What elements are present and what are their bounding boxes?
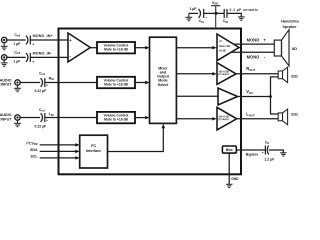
ground (C_S1) [185, 13, 192, 20]
svg-text:1 µF: 1 µF [13, 42, 20, 46]
svg-text:(2 steps): (2 steps) [218, 73, 228, 76]
svg-text:SDA: SDA [30, 148, 38, 152]
wire C_IN2 to VC2 [45, 82, 97, 84]
svg-text:INPUT: INPUT [0, 83, 12, 87]
wire C_IN1 to VC3 [45, 117, 97, 119]
svg-text:Mute to +18 dB: Mute to +18 dB [104, 48, 128, 52]
svg-text:Mute to +18 dB: Mute to +18 dB [104, 117, 128, 121]
svg-text:Handsfree: Handsfree [281, 19, 299, 23]
svg-text:Class AB: Class AB [219, 44, 230, 48]
block Mixer and Output Mode Select [150, 37, 177, 123]
svg-text:SCL: SCL [30, 154, 38, 158]
wire mixer to U6 [176, 118, 213, 120]
svg-text:32Ω: 32Ω [291, 112, 298, 116]
ground (J4 shell) [14, 120, 21, 127]
svg-text:+0: +0 [219, 39, 223, 43]
svg-text:MONO: MONO [247, 37, 261, 42]
wire U5 to VOC node [238, 96, 271, 98]
svg-text:MONO: MONO [247, 54, 261, 59]
svg-text:INPUT: INPUT [0, 117, 12, 121]
arrowhead VC1 to mixer [145, 46, 149, 49]
svg-text:ROUT: ROUT [246, 66, 255, 72]
svg-text:I2CVDD: I2CVDD [26, 140, 37, 146]
ground (J2 shell) [1, 60, 8, 66]
arrowhead mixer to U4 [212, 72, 216, 75]
arrowhead mixer to U3 [212, 46, 216, 49]
wire Bias to GND pin [228, 153, 230, 184]
svg-text:+: + [69, 38, 72, 43]
svg-text:Bias: Bias [226, 148, 233, 152]
wire U7 to mixer [108, 128, 164, 152]
svg-text:-: - [70, 53, 72, 58]
IC outline U1 [59, 29, 242, 175]
block Volume Control 2 [97, 77, 135, 88]
capacitor C_S2 [224, 9, 227, 18]
wire J4 to C_IN1 [20, 117, 40, 119]
svg-text:Cin4: Cin4 [14, 33, 21, 38]
op-amp U5 output common buffer [218, 88, 238, 105]
svg-text:+: + [263, 37, 266, 42]
svg-text:Cin2: Cin2 [39, 71, 46, 76]
svg-text:8Ω: 8Ω [292, 47, 297, 51]
svg-text:0.22 µF: 0.22 µF [35, 89, 47, 93]
op-amp U4 right headphone amp [217, 63, 236, 85]
svg-text:+: + [46, 119, 48, 123]
svg-text:CS2: CS2 [223, 19, 229, 24]
svg-text:MONO_IN-: MONO_IN- [33, 51, 53, 55]
capacitor C_IN2 [41, 78, 45, 87]
ground (J3 shell) [14, 85, 21, 92]
ground (J1 shell) [1, 43, 8, 50]
svg-text:+: + [32, 60, 34, 64]
block Bias supply [222, 146, 236, 153]
wire mixer to U3 [176, 47, 213, 49]
wire J3 to C_IN2 [20, 82, 40, 84]
wire U6 to SPK3 [237, 118, 279, 120]
wire VOC node to SPK3 return [271, 97, 279, 115]
wire Bias to Bypass pin [236, 149, 265, 151]
wire mixer to U5 [176, 95, 218, 97]
ground (C_S2) [238, 17, 245, 20]
svg-text:Interface: Interface [86, 149, 101, 153]
wire C_IN3 to U2 -in [30, 56, 68, 58]
speaker SPK3 left 32 ohm [278, 109, 287, 125]
wire U3 out MONO+ [234, 43, 275, 45]
wire SDA to U7 [40, 150, 77, 152]
block Volume Control 3 [97, 112, 135, 123]
wire VC1 to mixer [135, 47, 146, 49]
svg-text:CS1: CS1 [199, 19, 205, 24]
svg-text:(2 steps): (2 steps) [218, 118, 228, 121]
wire VC3 to mixer [135, 117, 146, 119]
svg-text:MONO_IN+: MONO_IN+ [33, 34, 53, 38]
wire U3 out MONO- [231, 51, 274, 53]
arrowhead I2CVDD [75, 143, 79, 146]
wire I2CVDD to U7 [40, 144, 77, 146]
wire mixer to U4 [176, 73, 213, 75]
svg-text:+: + [206, 15, 208, 19]
input jack J4 (left audio input) [15, 115, 20, 120]
wire C_S2 to ground [227, 13, 241, 17]
svg-text:Cin1: Cin1 [39, 108, 46, 113]
svg-text:Cin3: Cin3 [14, 50, 21, 55]
capacitor C_S1 [199, 9, 204, 18]
wire U2 out to VC1 [90, 47, 97, 49]
capacitor C_IN3 [26, 53, 30, 62]
svg-text:I2C: I2C [91, 143, 96, 148]
svg-text:Select: Select [158, 83, 169, 87]
arrowhead SCL [75, 156, 79, 159]
block Volume Control 1 [97, 42, 135, 53]
speaker SPK1 handsfree [274, 30, 289, 66]
junction VDD node [215, 12, 218, 15]
svg-text:Mute to +18 dB: Mute to +18 dB [104, 82, 128, 86]
svg-text:LOUT: LOUT [246, 111, 255, 117]
wire U4 to SPK2 [236, 73, 278, 75]
power flag VDD [211, 1, 220, 29]
wire C_B to ground [269, 150, 284, 153]
svg-text:CB: CB [265, 140, 269, 145]
arrowhead VC2 to mixer [145, 81, 149, 84]
svg-text:VDD: VDD [212, 1, 218, 6]
op-amp U6 left headphone amp [217, 107, 237, 129]
block U7 I2C interface [80, 135, 108, 168]
svg-text:RIN: RIN [49, 76, 54, 81]
arrowhead mixer to U6 [212, 117, 216, 120]
input jack J3 (right audio input) [15, 80, 20, 85]
svg-text:VOC: VOC [246, 89, 253, 95]
junction VOC node [269, 95, 272, 98]
svg-text:+: + [262, 151, 264, 155]
arrowhead SDA [75, 150, 79, 153]
svg-text:LIN: LIN [49, 112, 54, 117]
ground (C_B) [280, 153, 286, 156]
arrowhead U7 to mixer [162, 124, 165, 128]
capacitor C_IN4 [26, 36, 30, 45]
wire VDD node to C_S2 [216, 12, 224, 14]
svg-text:Bypass: Bypass [246, 152, 258, 156]
arrowhead VC3 to mixer [145, 116, 149, 119]
svg-text:+: + [32, 42, 34, 46]
svg-text:GND: GND [231, 177, 239, 181]
capacitor C_IN1 [41, 113, 45, 122]
input jack J1 (MONO_IN+) [1, 37, 6, 42]
svg-text:+: + [46, 84, 48, 88]
wire J2 to C_IN3 [7, 56, 26, 58]
op-amp U2 mono differential input amp [68, 33, 90, 62]
wire C_IN4 to U2 +in [30, 39, 68, 41]
speaker SPK2 right 32 ohm [278, 67, 287, 82]
svg-text:32Ω: 32Ω [291, 74, 298, 78]
capacitor C_B [265, 146, 268, 155]
svg-text:1 µF: 1 µF [189, 7, 196, 11]
svg-text:Speaker: Speaker [282, 25, 297, 29]
wire J1 to C_IN4 [7, 39, 26, 41]
wire C_S1 to ground [189, 12, 198, 14]
svg-text:1 µF: 1 µF [13, 60, 20, 64]
op-amp U3 mono class-AB speaker amp [217, 34, 239, 61]
wire VC2 to mixer [135, 82, 146, 84]
input jack J2 (MONO_IN-) [1, 55, 6, 60]
svg-text:2.2 µF: 2.2 µF [265, 157, 275, 161]
wire SCL to U7 [40, 157, 77, 159]
wire SPK2 return to VOC node [271, 77, 279, 97]
svg-text:0.1 µF ceramic: 0.1 µF ceramic [230, 8, 259, 12]
wire VDD node to C_S1 [204, 12, 216, 14]
svg-text:-: - [264, 54, 266, 59]
ground (GND pin) [226, 184, 232, 187]
svg-text:0.22 µF: 0.22 µF [35, 125, 47, 129]
svg-text:+6 dB: +6 dB [219, 48, 226, 52]
